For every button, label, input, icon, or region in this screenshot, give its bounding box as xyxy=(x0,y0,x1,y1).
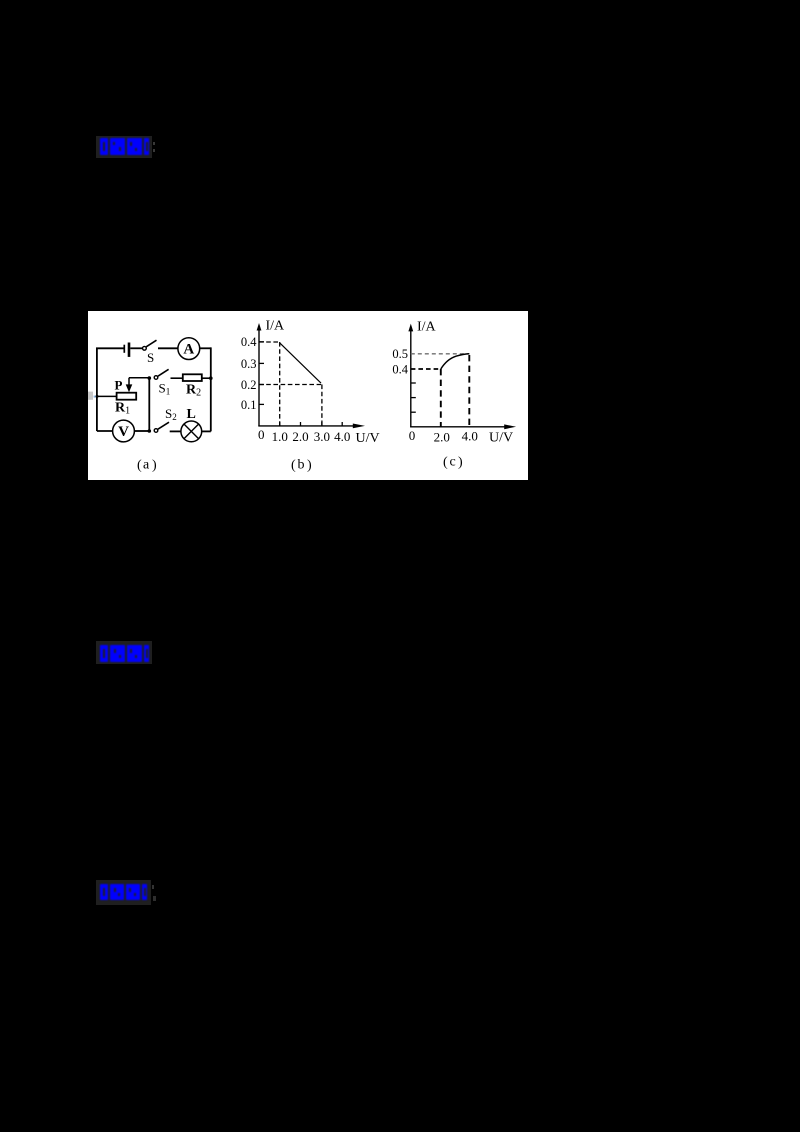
svg-text:U/V: U/V xyxy=(356,431,380,446)
highlighted marker 1 xyxy=(96,136,152,158)
caption (b) xyxy=(291,458,312,474)
wire bottom left xyxy=(97,430,113,432)
label R2 xyxy=(186,383,201,399)
svg-text:0.5: 0.5 xyxy=(392,347,408,361)
svg-text:S: S xyxy=(147,350,154,365)
node bottom xyxy=(148,429,152,433)
svg-text:): ) xyxy=(458,455,463,470)
y ticks xyxy=(259,342,264,405)
svg-text:0.1: 0.1 xyxy=(241,398,257,412)
wire S2 to lamp xyxy=(170,430,181,432)
svg-text:V: V xyxy=(118,424,129,440)
wire ammeter to right corner xyxy=(200,347,211,349)
svg-text:P: P xyxy=(115,378,123,393)
lamp L xyxy=(181,421,202,442)
svg-text:S1: S1 xyxy=(159,381,171,397)
label U/V xyxy=(356,431,380,446)
axis x xyxy=(258,425,353,427)
svg-text:S2: S2 xyxy=(165,406,177,422)
slider P arrow xyxy=(126,378,133,393)
svg-text:c: c xyxy=(450,455,456,470)
guide dash 0.5 xyxy=(411,353,470,355)
svg-text:U/V: U/V xyxy=(489,431,513,446)
guide dash 0.4 xyxy=(411,368,441,370)
node left rail xyxy=(96,395,99,398)
axis y c xyxy=(410,331,412,427)
wire voltmeter to node xyxy=(134,430,149,432)
axis x c xyxy=(410,426,505,428)
cursor artifact blue xyxy=(94,396,96,398)
svg-text:I/A: I/A xyxy=(417,320,437,335)
svg-text:b: b xyxy=(298,458,305,473)
svg-text:0: 0 xyxy=(409,428,416,443)
label S1 xyxy=(159,381,171,397)
x labels c xyxy=(409,428,478,445)
y labels c xyxy=(392,347,408,376)
guide dash vertical 4.0 xyxy=(468,355,470,427)
svg-text:0.2: 0.2 xyxy=(241,378,257,392)
x labels xyxy=(258,427,350,444)
label S2 xyxy=(165,406,177,422)
caption (c) xyxy=(443,455,463,471)
y labels xyxy=(241,335,257,412)
wire battery to switch xyxy=(130,347,142,349)
svg-text:2.0: 2.0 xyxy=(434,430,450,445)
svg-text:(: ( xyxy=(443,455,448,470)
switch S xyxy=(143,340,157,350)
ammeter A xyxy=(178,338,200,360)
svg-text:): ) xyxy=(152,458,157,473)
svg-text:(: ( xyxy=(137,458,142,473)
wire left to R1 xyxy=(97,395,117,397)
label S xyxy=(147,350,154,365)
wire slider horizontal xyxy=(129,377,149,379)
wire top left xyxy=(96,347,124,349)
selection artifact gray xyxy=(88,392,93,400)
wire middle vertical xyxy=(148,378,150,431)
wire right vertical xyxy=(210,347,212,431)
svg-text:4.0: 4.0 xyxy=(462,429,478,444)
label I/A c xyxy=(417,320,437,335)
wire R2 to right rail xyxy=(202,377,211,379)
caption (a) xyxy=(137,458,157,474)
svg-text:2.0: 2.0 xyxy=(292,429,308,444)
svg-text:a: a xyxy=(143,458,150,473)
guide dash vertical 2.0 xyxy=(440,369,442,427)
guide dashes b xyxy=(259,342,322,426)
node branch left xyxy=(148,376,152,380)
curve b xyxy=(280,343,321,383)
wire S1 to R2 xyxy=(171,377,183,379)
curve c xyxy=(441,354,470,369)
svg-text:L: L xyxy=(187,407,196,422)
svg-text:0.4: 0.4 xyxy=(392,362,408,376)
svg-text:R1: R1 xyxy=(115,401,130,417)
wire left vertical xyxy=(96,348,98,431)
resistor R2 xyxy=(183,374,202,381)
rheostat R1 xyxy=(117,393,137,400)
battery cell xyxy=(124,343,129,357)
figure panel xyxy=(88,311,528,480)
label U/V c xyxy=(489,431,513,446)
svg-text:3.0: 3.0 xyxy=(314,429,330,444)
svg-text:1.0: 1.0 xyxy=(272,429,288,444)
highlighted marker 2 xyxy=(96,641,152,664)
svg-text:I/A: I/A xyxy=(266,319,286,334)
label P xyxy=(115,378,123,393)
svg-text:A: A xyxy=(183,342,194,358)
label I/A xyxy=(266,319,286,334)
label R1 xyxy=(115,401,130,417)
svg-text:R2: R2 xyxy=(186,383,201,399)
voltmeter V xyxy=(113,420,135,442)
label L xyxy=(187,407,196,422)
wire lamp to right rail xyxy=(202,430,211,432)
switch S1 xyxy=(154,369,168,379)
svg-text:4.0: 4.0 xyxy=(334,429,350,444)
switch S2 xyxy=(154,422,169,432)
svg-text:(: ( xyxy=(291,458,296,473)
node branch right xyxy=(209,376,213,380)
x ticks xyxy=(280,422,343,426)
svg-text:0: 0 xyxy=(258,427,265,442)
svg-text:): ) xyxy=(307,458,312,473)
svg-text:0.4: 0.4 xyxy=(241,335,257,349)
wire switch to ammeter xyxy=(158,347,178,349)
svg-text:0.3: 0.3 xyxy=(241,357,257,371)
y ticks c xyxy=(411,383,416,412)
axis y xyxy=(258,330,260,426)
highlighted marker 3 xyxy=(96,880,151,905)
